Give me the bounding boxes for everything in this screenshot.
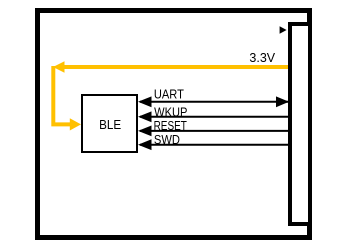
svg-text:UART: UART (154, 87, 184, 102)
svg-text:WKUP: WKUP (154, 105, 187, 120)
svg-text:3.3V: 3.3V (249, 51, 275, 65)
svg-text:SWD: SWD (154, 132, 180, 147)
svg-text:BLE: BLE (99, 118, 121, 132)
